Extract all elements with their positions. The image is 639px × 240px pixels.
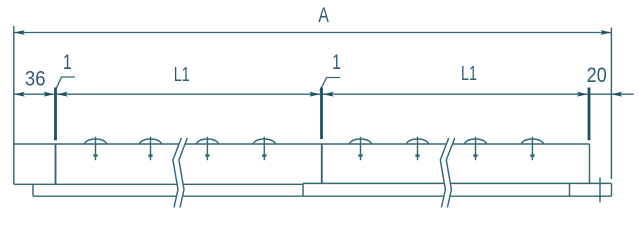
svg-text:L1: L1	[174, 62, 190, 85]
svg-text:L1: L1	[461, 61, 477, 84]
svg-text:1: 1	[332, 50, 341, 74]
svg-text:A: A	[318, 3, 329, 27]
svg-text:1: 1	[63, 50, 72, 74]
svg-text:20: 20	[587, 64, 607, 88]
svg-text:36: 36	[25, 67, 46, 90]
